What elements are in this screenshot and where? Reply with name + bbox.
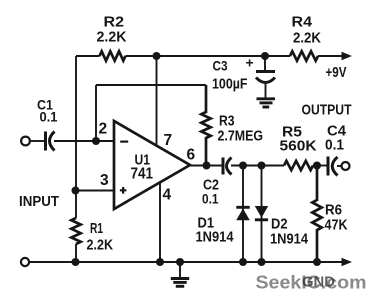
wire top rail left segment bbox=[76, 55, 100, 57]
svg-text:2.2K: 2.2K bbox=[97, 29, 127, 46]
terminal input (signal) bbox=[21, 137, 30, 146]
svg-text:741: 741 bbox=[131, 165, 154, 182]
wire pin 6 output segment bbox=[190, 165, 222, 167]
junction bottom rail / R6 bbox=[313, 258, 321, 266]
resistor R2 bbox=[100, 51, 126, 60]
junction output / D2 bbox=[258, 162, 266, 170]
wire feedback vertical (pin 2 up) bbox=[95, 85, 97, 141]
terminal output bbox=[342, 162, 350, 170]
resistor R5 bbox=[284, 161, 313, 170]
wire feedback horizontal (to R3 top) bbox=[96, 84, 206, 86]
wire input terminal to C1 bbox=[30, 140, 44, 142]
svg-text:6: 6 bbox=[187, 146, 196, 163]
junction output / R6 bbox=[313, 162, 321, 170]
junction top rail / pin 7 bbox=[153, 52, 161, 60]
svg-text:0.1: 0.1 bbox=[202, 191, 219, 207]
junction top rail / C3 bbox=[261, 52, 269, 60]
capacitor C1 bbox=[46, 132, 55, 151]
wire left vertical lower (R1 to bottom rail) bbox=[75, 244, 77, 262]
wire C2 to R5 bbox=[231, 165, 284, 167]
terminal input (ground side) bbox=[21, 258, 29, 266]
arrow bottom rail to GND bbox=[342, 258, 353, 267]
junction pin 2 node bbox=[92, 137, 100, 145]
wire pin 4 ground bbox=[159, 183, 161, 263]
ground symbol (C3) bbox=[257, 99, 276, 107]
svg-text:4: 4 bbox=[163, 186, 172, 203]
svg-text:3: 3 bbox=[100, 172, 109, 189]
svg-text:OUTPUT: OUTPUT bbox=[302, 102, 352, 119]
capacitor C3 bbox=[256, 56, 275, 98]
diode D1 1N914 bbox=[236, 166, 250, 263]
svg-text:R1: R1 bbox=[90, 221, 103, 237]
svg-text:2.7MEG: 2.7MEG bbox=[218, 129, 264, 145]
ground symbol (main) bbox=[171, 262, 189, 286]
svg-text:R3: R3 bbox=[219, 114, 235, 130]
wire pin 7 supply bbox=[156, 56, 158, 146]
svg-text:+: + bbox=[246, 55, 254, 71]
svg-text:D2: D2 bbox=[271, 217, 288, 233]
svg-text:7: 7 bbox=[164, 132, 173, 149]
svg-text:R4: R4 bbox=[292, 15, 313, 31]
junction bottom rail / ground symbol bbox=[176, 258, 184, 266]
wire C4 to output terminal bbox=[337, 165, 342, 167]
junction bottom rail / D2 bbox=[258, 258, 266, 266]
diode D2 1N914 bbox=[255, 166, 268, 263]
wire C1 to pin 2 bbox=[54, 140, 96, 142]
svg-text:100µF: 100µF bbox=[212, 77, 248, 93]
capacitor C2 bbox=[223, 158, 232, 175]
svg-text:C3: C3 bbox=[213, 58, 228, 74]
resistor R1 bbox=[71, 218, 80, 244]
svg-text:R6: R6 bbox=[325, 203, 342, 219]
svg-text:0.1: 0.1 bbox=[325, 138, 344, 154]
svg-text:2.2K: 2.2K bbox=[87, 237, 114, 254]
capacitor C4 bbox=[328, 157, 338, 176]
wire bottom rail bbox=[30, 261, 344, 263]
svg-text:+9V: +9V bbox=[326, 65, 347, 81]
svg-text:2.2K: 2.2K bbox=[293, 30, 321, 47]
wire R5 to C4 bbox=[313, 165, 327, 167]
wire +9V supply arrow bbox=[318, 52, 352, 61]
wire pin 2 stub bbox=[96, 140, 114, 142]
wire left vertical upper (R2 to R1) bbox=[75, 56, 77, 218]
resistor R3 bbox=[201, 85, 210, 166]
resistor R4 bbox=[290, 51, 318, 60]
resistor R6 bbox=[312, 166, 321, 263]
junction output / D1 bbox=[239, 162, 247, 170]
svg-text:1N914: 1N914 bbox=[196, 230, 234, 246]
op-amp U1 bbox=[114, 121, 190, 209]
wire top rail middle segment bbox=[126, 55, 291, 57]
svg-text:2: 2 bbox=[99, 121, 108, 138]
svg-text:GND: GND bbox=[302, 274, 335, 291]
junction bottom rail / pin 4 bbox=[156, 258, 164, 266]
junction pin 3 / divider bbox=[72, 187, 80, 195]
svg-text:INPUT: INPUT bbox=[19, 193, 59, 210]
svg-text:0.1: 0.1 bbox=[40, 109, 58, 125]
svg-text:47K: 47K bbox=[325, 218, 348, 234]
svg-text:560K: 560K bbox=[280, 138, 317, 155]
wire pin 3 stub bbox=[76, 190, 115, 192]
junction bottom rail / R1 bbox=[72, 258, 80, 266]
junction output / R3 bbox=[203, 162, 211, 170]
junction bottom rail / D1 bbox=[239, 258, 247, 266]
svg-text:1N914: 1N914 bbox=[270, 232, 308, 248]
